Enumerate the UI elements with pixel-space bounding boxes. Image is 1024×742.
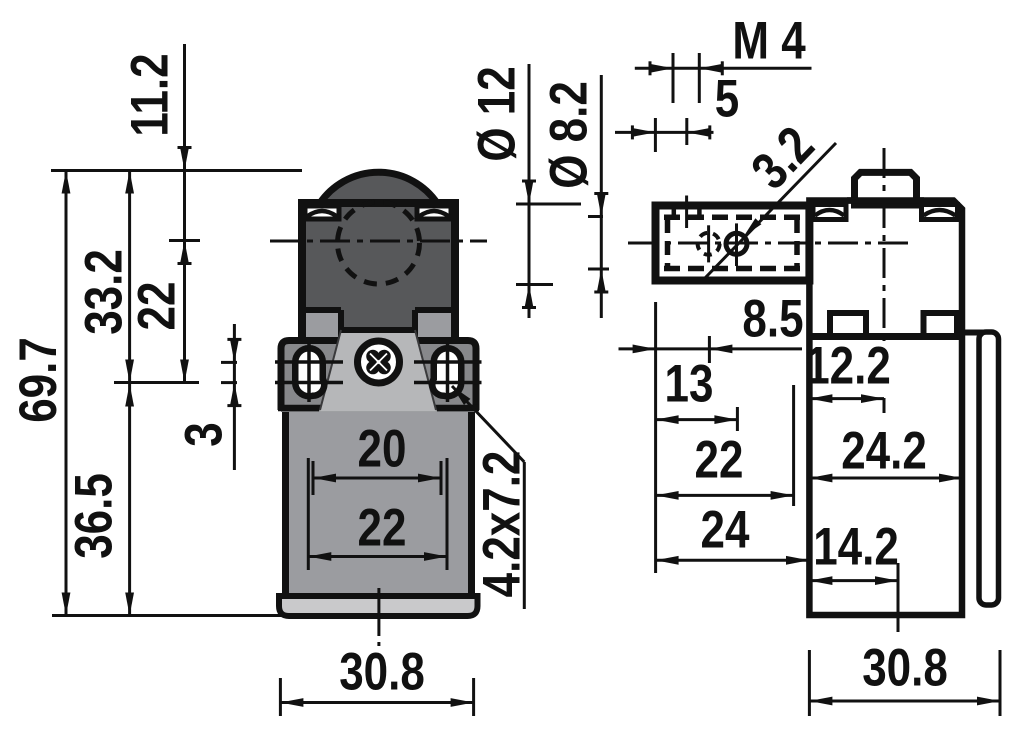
svg-text:8.5: 8.5 [742, 290, 803, 349]
svg-text:33.2: 33.2 [75, 249, 134, 335]
svg-text:22: 22 [358, 499, 407, 558]
svg-text:Ø 8.2: Ø 8.2 [540, 81, 599, 189]
svg-text:11.2: 11.2 [121, 53, 180, 136]
svg-text:12.2: 12.2 [805, 337, 891, 396]
svg-text:69.7: 69.7 [9, 337, 68, 423]
svg-text:4.2x7.2: 4.2x7.2 [473, 451, 532, 598]
svg-text:30.8: 30.8 [862, 639, 948, 698]
svg-text:30.8: 30.8 [339, 643, 425, 702]
svg-text:13: 13 [665, 355, 714, 414]
svg-text:24: 24 [701, 501, 750, 560]
svg-text:14.2: 14.2 [813, 518, 899, 577]
svg-text:Ø 12: Ø 12 [468, 66, 527, 161]
svg-text:3: 3 [175, 422, 234, 446]
svg-text:24.2: 24.2 [841, 422, 927, 481]
svg-text:22: 22 [128, 282, 187, 331]
svg-text:M 4: M 4 [732, 12, 805, 71]
svg-text:22: 22 [695, 431, 744, 490]
svg-text:36.5: 36.5 [65, 473, 124, 559]
svg-text:20: 20 [358, 420, 407, 479]
svg-text:5: 5 [715, 70, 739, 129]
